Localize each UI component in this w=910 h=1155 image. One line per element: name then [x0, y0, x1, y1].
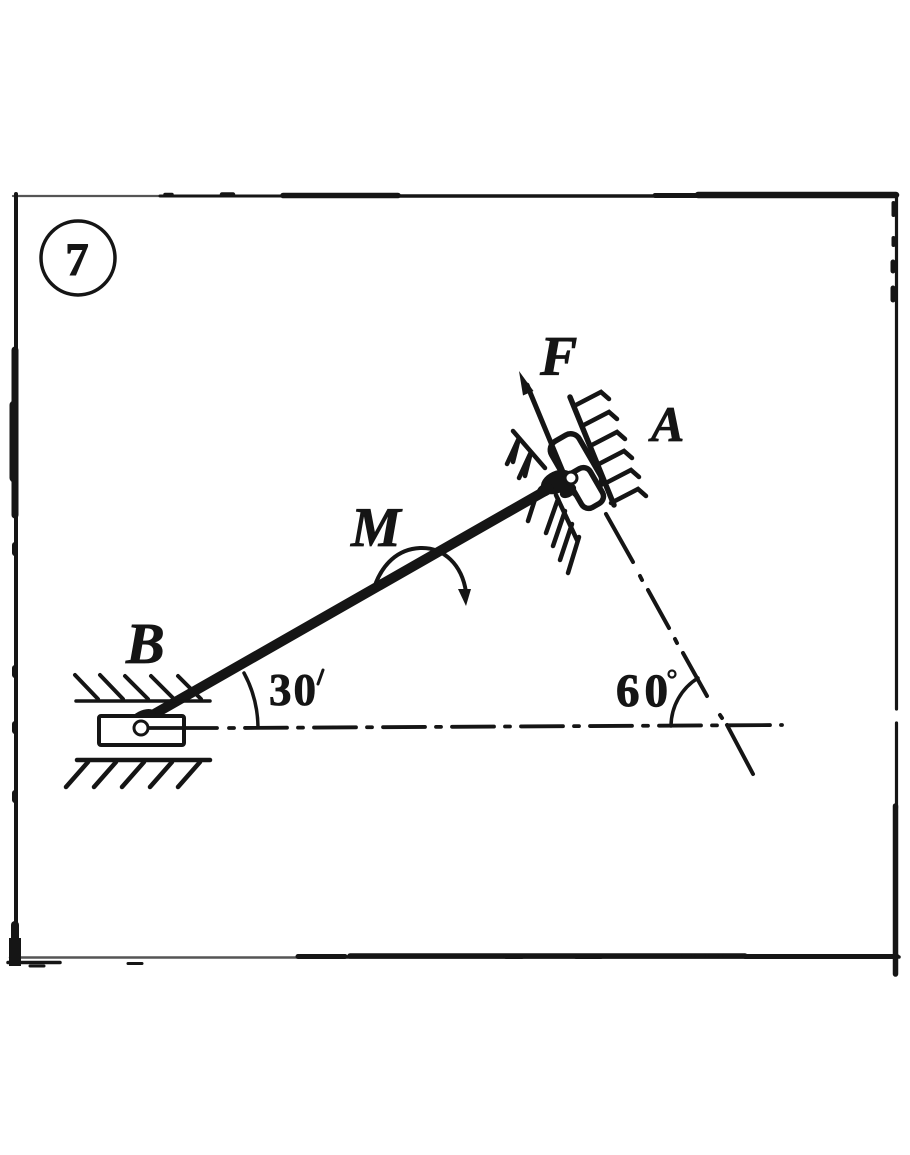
svg-text:A: A: [648, 396, 684, 452]
svg-text:7: 7: [65, 234, 89, 286]
svg-text:60: 60: [616, 665, 673, 717]
svg-text:F: F: [539, 326, 577, 388]
svg-text:M: M: [350, 497, 403, 559]
svg-text:B: B: [125, 611, 165, 676]
svg-text:30: 30: [269, 665, 318, 715]
